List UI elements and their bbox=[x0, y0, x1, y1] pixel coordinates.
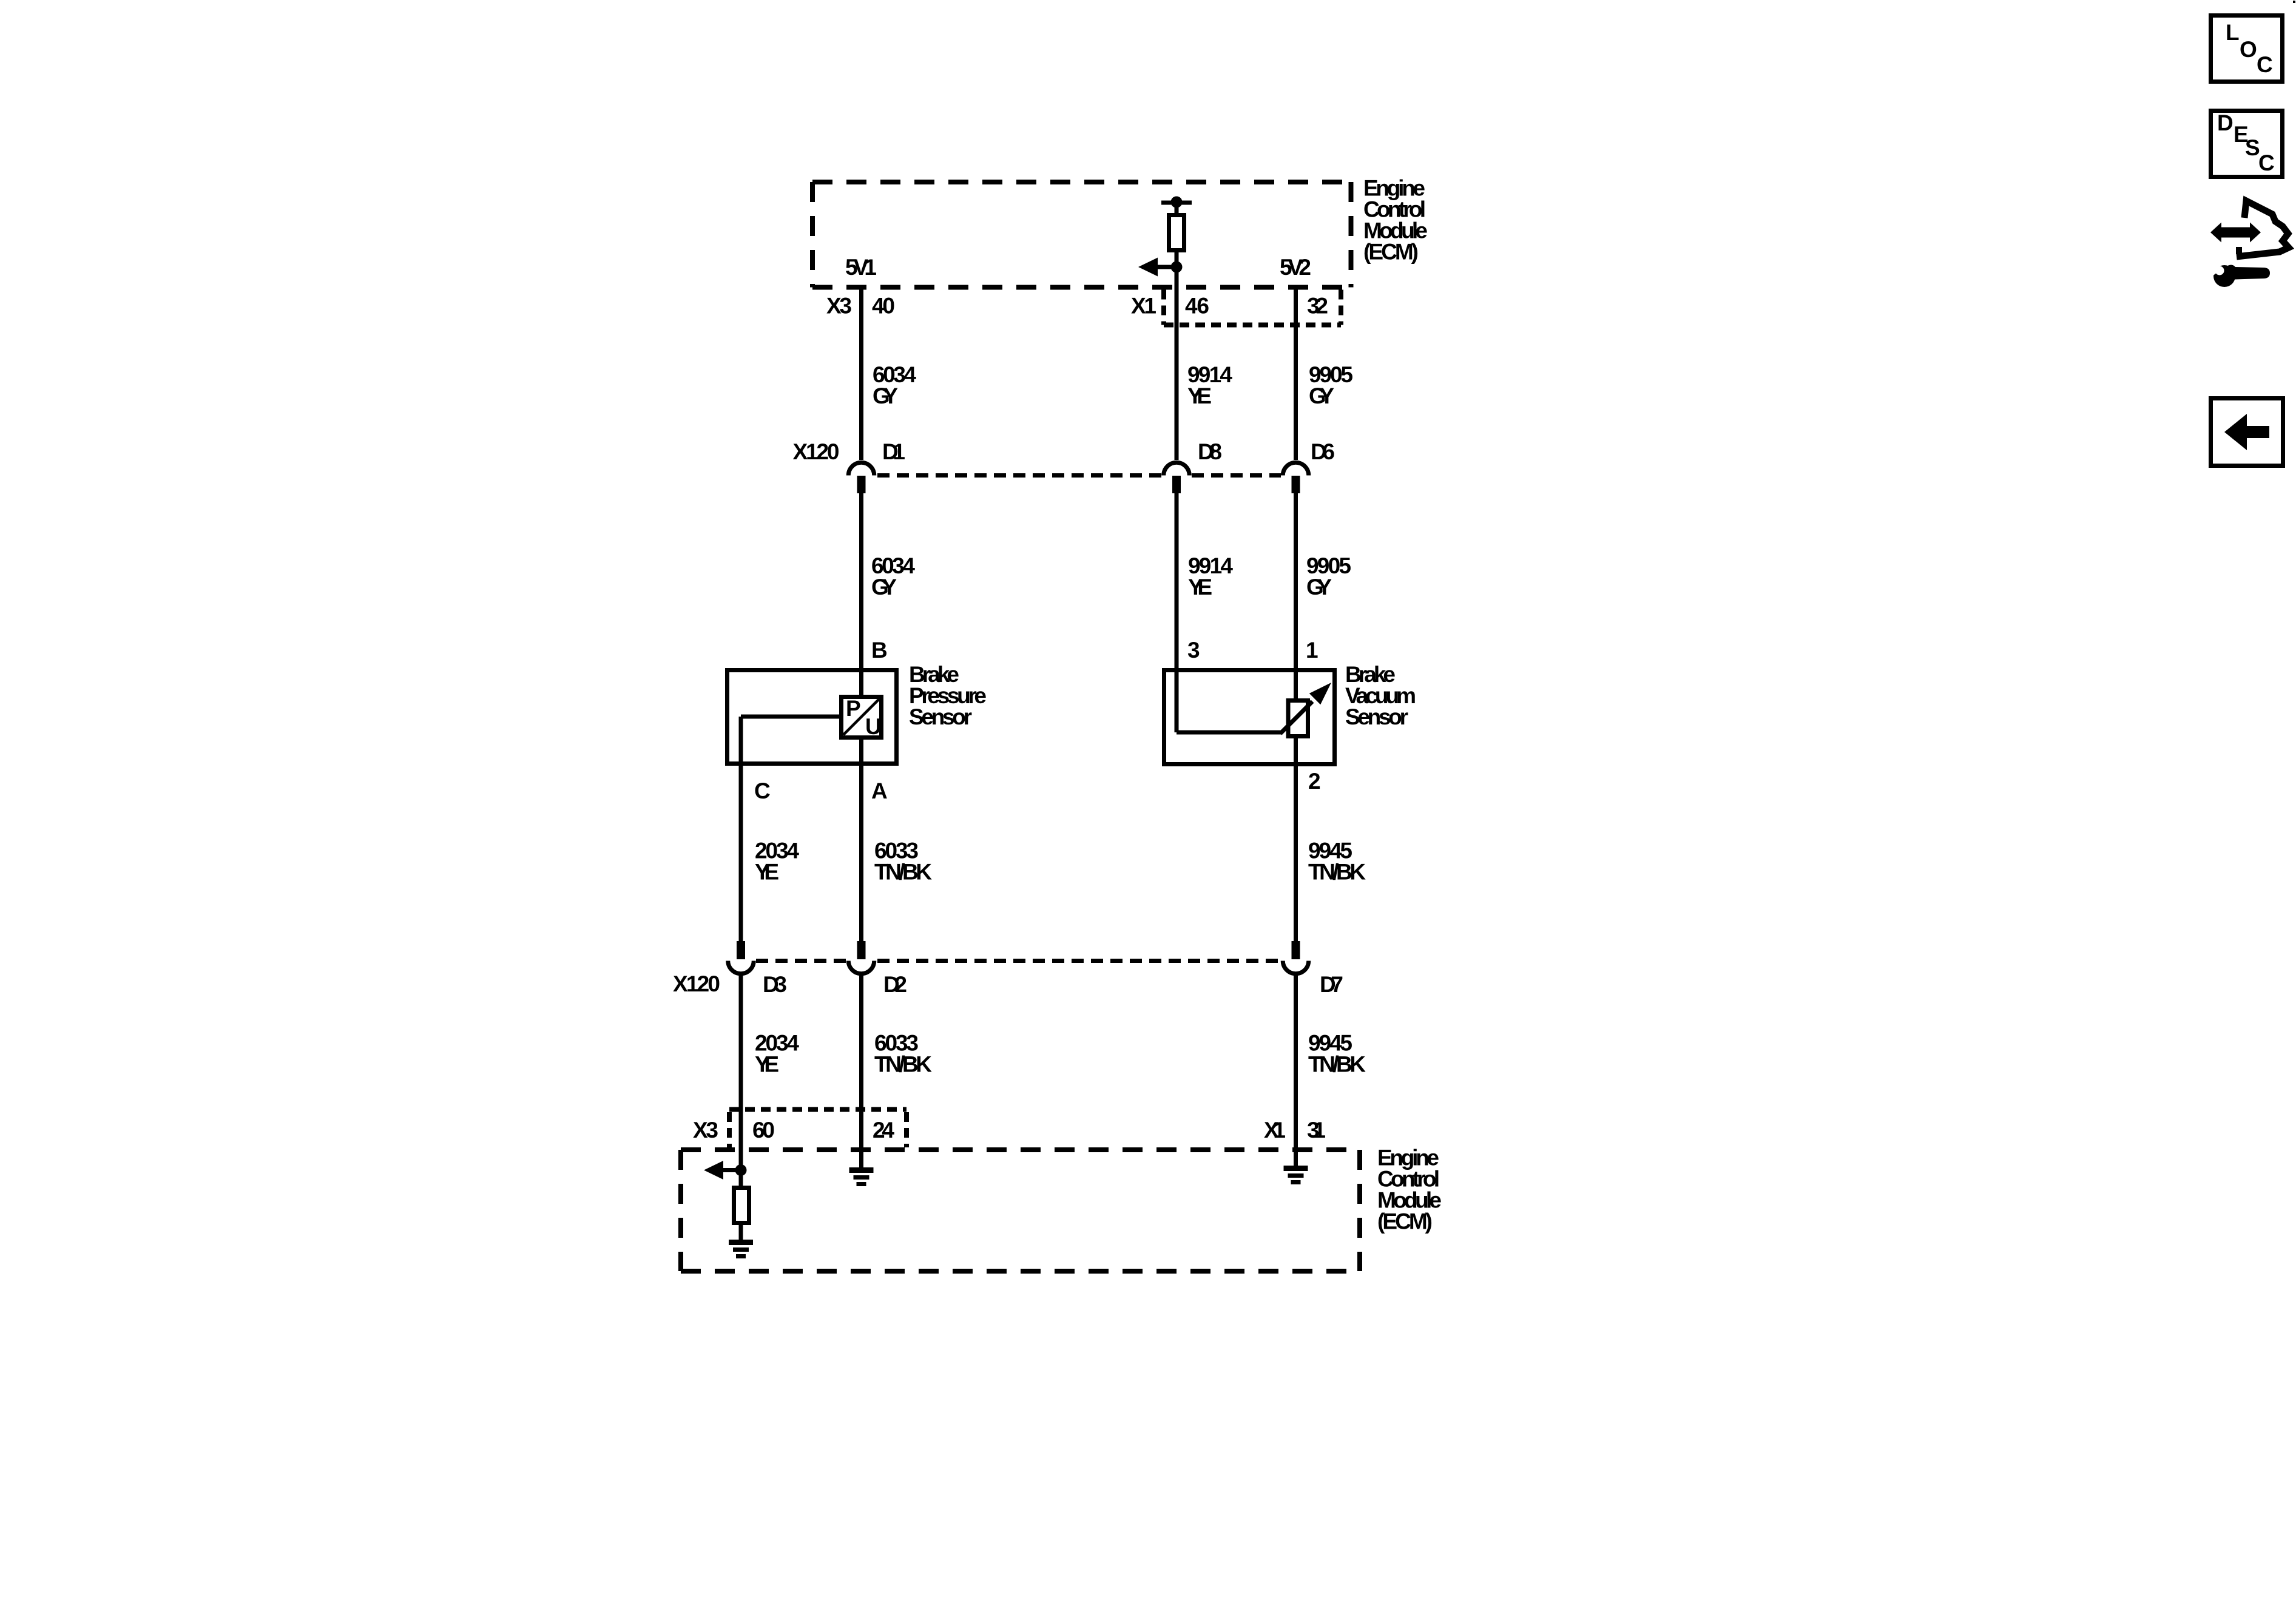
wire label 6034 GY (upper) bbox=[873, 362, 916, 408]
svg-text:31: 31 bbox=[1307, 1118, 1326, 1143]
wire label 9945 TN/BK (lower) bbox=[1308, 1031, 1366, 1077]
internal wire C leg of pressure sensor bbox=[741, 715, 841, 719]
inline connector X120 labels bbox=[793, 439, 1335, 464]
Brake Pressure Sensor label bbox=[909, 662, 987, 729]
svg-text:C: C bbox=[2257, 52, 2273, 77]
svg-text:YE: YE bbox=[755, 860, 779, 885]
connector D3 (X120) bbox=[728, 941, 754, 974]
LOC icon box bbox=[2211, 16, 2283, 82]
wire label 9945 TN/BK (upper) bbox=[1308, 839, 1366, 885]
svg-text:YE: YE bbox=[1187, 383, 1212, 408]
svg-text:X120: X120 bbox=[793, 439, 840, 464]
svg-text:2: 2 bbox=[1308, 769, 1321, 794]
wire 5V1 ECM to D1 bbox=[859, 289, 863, 460]
wire D1 to Brake Pressure Sensor pin B bbox=[859, 493, 863, 697]
pin labels X3 40 / X1 46 32 bbox=[826, 294, 1328, 319]
svg-text:Sensor: Sensor bbox=[909, 704, 972, 729]
svg-text:TN/BK: TN/BK bbox=[1308, 860, 1366, 885]
wire label 9914 YE (upper) bbox=[1187, 362, 1232, 408]
svg-text:L: L bbox=[2226, 20, 2240, 45]
svg-text:GY: GY bbox=[871, 575, 897, 599]
wire D3 to ECM pin 60 bbox=[739, 974, 743, 1173]
connector D8 (X120) bbox=[1164, 462, 1190, 493]
svg-text:5V1: 5V1 bbox=[845, 255, 877, 280]
svg-text:D3: D3 bbox=[763, 972, 787, 997]
harness repair icon (double arrow, harness outline, wrench) bbox=[2206, 201, 2289, 287]
ground (pin 24) bbox=[849, 1167, 874, 1186]
pin labels X3 60 24 / X1 31 bbox=[693, 1118, 1326, 1143]
ECM top label bbox=[1363, 176, 1428, 265]
svg-text:X1: X1 bbox=[1264, 1118, 1286, 1143]
wire D6 to Brake Vacuum Sensor pin 1 bbox=[1294, 493, 1298, 700]
svg-text:YE: YE bbox=[755, 1052, 779, 1077]
connector D6 (X120) bbox=[1283, 462, 1309, 493]
svg-text:GY: GY bbox=[873, 383, 898, 408]
svg-text:1: 1 bbox=[1306, 638, 1319, 663]
svg-text:GY: GY bbox=[1306, 575, 1332, 599]
wire label 6033 TN/BK (lower) bbox=[874, 1031, 932, 1077]
svg-text:D2: D2 bbox=[883, 972, 907, 997]
wire D2 to ECM pin 24 bbox=[859, 974, 863, 1170]
DESC icon box bbox=[2211, 110, 2283, 177]
svg-text:YE: YE bbox=[1188, 575, 1212, 599]
svg-text:O: O bbox=[2240, 37, 2257, 62]
node with signal arrow (pin 60) bbox=[704, 1161, 747, 1180]
Brake Pressure Sensor box bbox=[728, 670, 897, 764]
connector D7 (X120) bbox=[1283, 941, 1309, 974]
Brake Vacuum Sensor box bbox=[1164, 670, 1335, 765]
wire label 9905 GY (lower) bbox=[1306, 553, 1351, 599]
wire label 2034 YE (upper) bbox=[755, 839, 799, 885]
svg-text:40: 40 bbox=[872, 294, 895, 319]
svg-text:X120: X120 bbox=[673, 971, 720, 996]
resistor R2 (inside ECM to ground) bbox=[734, 1170, 749, 1240]
svg-text:X1: X1 bbox=[1131, 294, 1156, 319]
svg-text:TN/BK: TN/BK bbox=[1308, 1052, 1366, 1077]
node / signal arrow to left (5V ref) bbox=[1138, 258, 1183, 277]
connector X1 sub-box (dotted) bbox=[1164, 290, 1341, 325]
svg-text:S: S bbox=[2245, 135, 2260, 160]
wire label 2034 YE (lower) bbox=[755, 1031, 799, 1077]
X120 harness dashed line (lower) bbox=[756, 959, 846, 963]
svg-text:D7: D7 bbox=[1320, 972, 1343, 997]
ECM bottom label bbox=[1377, 1146, 1442, 1234]
wire 46 ECM to D8 bbox=[1175, 267, 1179, 460]
svg-text:5V2: 5V2 bbox=[1280, 255, 1311, 280]
svg-text:(ECM): (ECM) bbox=[1377, 1209, 1433, 1234]
svg-text:C: C bbox=[2258, 150, 2275, 175]
svg-text:3: 3 bbox=[1187, 638, 1200, 663]
wire 2 from pot to D7 bbox=[1294, 737, 1298, 941]
ground (pin 60 branch) bbox=[729, 1240, 753, 1258]
connector D1 (X120) bbox=[848, 462, 874, 493]
svg-text:A: A bbox=[871, 778, 888, 803]
ground (pin 31) bbox=[1284, 1166, 1308, 1184]
svg-text:X3: X3 bbox=[826, 294, 852, 319]
svg-text:D: D bbox=[2217, 110, 2234, 135]
svg-text:(ECM): (ECM) bbox=[1363, 240, 1419, 265]
potentiometer symbol (vacuum sensor element) bbox=[1177, 683, 1331, 737]
connector X3 sub-box (dotted) bbox=[729, 1110, 907, 1148]
back arrow icon box bbox=[2211, 399, 2283, 466]
resistor R1 (pull-up inside ECM) bbox=[1161, 197, 1192, 268]
wire 32 ECM to D6 bbox=[1294, 289, 1298, 460]
svg-text:D1: D1 bbox=[882, 439, 905, 464]
connector D2 (X120) bbox=[848, 941, 874, 974]
svg-text:D6: D6 bbox=[1311, 439, 1335, 464]
svg-text:Sensor: Sensor bbox=[1345, 704, 1408, 729]
svg-text:GY: GY bbox=[1309, 383, 1334, 408]
svg-text:X3: X3 bbox=[693, 1118, 718, 1143]
ECM top box (Engine Control Module, dashed) bbox=[812, 182, 1351, 288]
svg-text:TN/BK: TN/BK bbox=[874, 1052, 932, 1077]
svg-text:46: 46 bbox=[1185, 294, 1209, 319]
svg-text:D8: D8 bbox=[1198, 439, 1222, 464]
X120 lower labels bbox=[673, 971, 1343, 997]
wire label 6034 GY (lower) bbox=[871, 553, 915, 599]
wire D7 to ECM pin 31 bbox=[1294, 974, 1298, 1168]
ECM bottom box (dashed) bbox=[681, 1150, 1360, 1271]
P/U transducer symbol bbox=[842, 696, 882, 739]
wire label 9914 YE (lower) bbox=[1188, 553, 1233, 599]
svg-text:U: U bbox=[865, 714, 882, 739]
svg-text:60: 60 bbox=[752, 1118, 775, 1143]
page corner dot bbox=[2293, 1, 2295, 3]
svg-text:24: 24 bbox=[873, 1118, 894, 1143]
svg-text:P: P bbox=[846, 696, 861, 721]
svg-text:B: B bbox=[871, 638, 888, 663]
X120 harness dashed line (upper) bbox=[877, 473, 1161, 478]
svg-text:C: C bbox=[754, 778, 771, 803]
svg-text:32: 32 bbox=[1307, 294, 1328, 319]
wire label 9905 GY (upper) bbox=[1309, 362, 1353, 408]
wire A from P/U to D2 bbox=[859, 737, 863, 941]
wire label 6033 TN/BK (upper) bbox=[874, 839, 932, 885]
wire D8 to Brake Vacuum Sensor pin 3 bbox=[1175, 493, 1179, 732]
svg-text:TN/BK: TN/BK bbox=[874, 860, 932, 885]
Brake Vacuum Sensor label bbox=[1345, 662, 1416, 729]
